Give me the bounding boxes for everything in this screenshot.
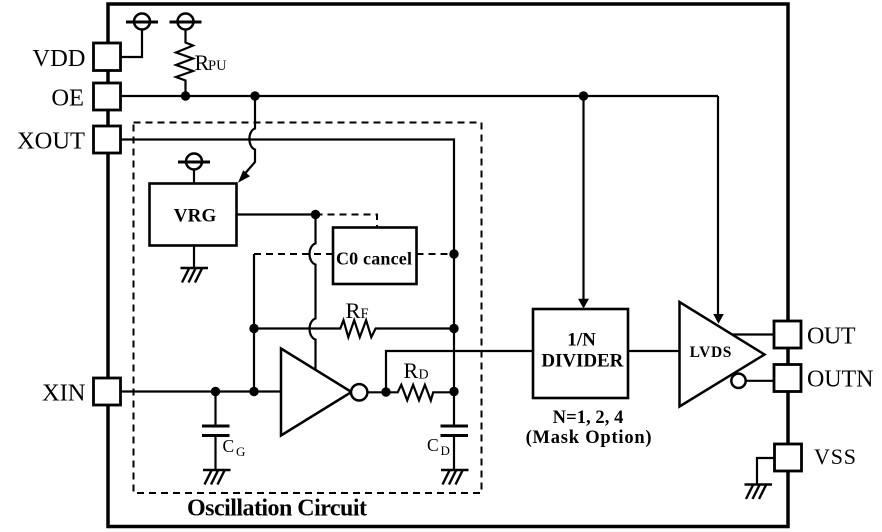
svg-text:DIVIDER: DIVIDER (541, 351, 623, 372)
svg-text:R: R (404, 358, 419, 383)
svg-text:XIN: XIN (42, 380, 86, 407)
svg-text:C0 cancel: C0 cancel (336, 249, 412, 269)
svg-text:VRG: VRG (174, 206, 217, 227)
svg-text:XOUT: XOUT (17, 128, 85, 155)
svg-text:Oscillation Circuit: Oscillation Circuit (187, 496, 367, 522)
svg-text:PU: PU (208, 58, 227, 74)
svg-text:G: G (236, 444, 245, 459)
svg-text:C: C (223, 436, 235, 456)
svg-text:VSS: VSS (814, 444, 856, 469)
svg-text:F: F (361, 306, 369, 322)
svg-text:LVDS: LVDS (690, 344, 732, 361)
svg-text:N=1, 2, 4: N=1, 2, 4 (553, 408, 624, 428)
svg-text:D: D (419, 368, 429, 383)
svg-text:(Mask Option): (Mask Option) (526, 428, 652, 448)
svg-text:D: D (441, 443, 450, 458)
svg-text:OUT: OUT (807, 324, 856, 350)
svg-text:VDD: VDD (32, 45, 85, 72)
svg-text:1/N: 1/N (567, 330, 596, 351)
svg-text:OE: OE (51, 85, 84, 112)
svg-text:R: R (346, 298, 361, 323)
svg-text:OUTN: OUTN (807, 367, 874, 393)
svg-text:C: C (427, 435, 439, 455)
